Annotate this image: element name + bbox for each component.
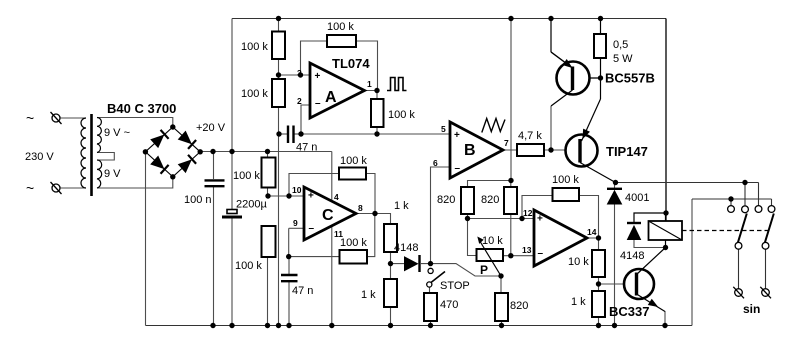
wire BC557B emitter feed: [550, 19, 552, 53]
wire wiper node to 820: [500, 276, 503, 326]
relay coil: [649, 221, 683, 240]
wire pot left terminal: [468, 219, 477, 256]
svg-text:BC557B: BC557B: [605, 71, 655, 86]
relay lever right: [765, 214, 774, 243]
switch STOP lever: [431, 272, 445, 283]
resistor 100k C divider upper: [262, 158, 276, 188]
svg-text:100 k: 100 k: [327, 21, 354, 33]
transistor TIP147 emitter lead: [582, 99, 601, 141]
svg-text:TL074: TL074: [332, 56, 370, 71]
wire C 47n bottom leads: [288, 257, 290, 326]
wire relay contact feed from TIP147 collector: [616, 183, 759, 207]
resistor 470: [424, 293, 437, 321]
potentiometer P wiper arrow: [477, 237, 501, 277]
svg-text:4148: 4148: [394, 242, 418, 254]
wire transformer secondary top lead to bridge: [97, 118, 173, 128]
transistor BC557B emitter lead: [551, 52, 573, 68]
transistor BC337 emitter arrow: [649, 300, 657, 307]
svg-text:P: P: [480, 263, 488, 277]
wire B output: [503, 149, 566, 151]
svg-text:–: –: [455, 163, 461, 174]
resistor 820 second: [504, 187, 517, 214]
transistor TIP147 emitter arrow: [583, 129, 589, 138]
transistor BC557B collector lead: [551, 90, 573, 106]
resistor 100k C feedback top: [339, 168, 366, 180]
resistor 100k A divider upper: [272, 32, 285, 60]
transformer T1 core: [90, 114, 93, 196]
svg-text:~: ~: [26, 180, 34, 196]
svg-text:820: 820: [510, 300, 528, 312]
wire x511 rail drop to 820 pair: [510, 19, 512, 181]
relay pole right circle: [762, 242, 769, 249]
resistor 100k C divider lower: [262, 226, 276, 257]
svg-text:5 W: 5 W: [613, 53, 633, 65]
resistor 1k C output: [384, 224, 397, 252]
relay contact c4: [768, 206, 775, 213]
wire A pin2 input: [301, 105, 310, 134]
wire TIP147 base: [551, 149, 578, 151]
svg-text:6: 6: [433, 158, 438, 168]
relay pole left circle: [735, 242, 742, 249]
wire D feedback: [522, 196, 599, 239]
resistor 100k C feedback bottom: [340, 250, 368, 264]
wire C divider upper lead: [267, 152, 269, 326]
bridge diode lower-left: [151, 156, 169, 174]
resistor 4.7k: [517, 144, 544, 156]
wire BC557B base lead: [574, 77, 601, 79]
op-amp D triangle: [534, 210, 587, 266]
wire A divider chain: [278, 19, 280, 326]
svg-text:100 k: 100 k: [241, 88, 268, 100]
svg-text:100 k: 100 k: [241, 41, 268, 53]
wire 47n left lead: [279, 133, 287, 135]
svg-text:12: 12: [523, 208, 533, 218]
svg-text:8: 8: [358, 203, 363, 213]
wire C out 1k to diode node: [391, 252, 431, 264]
wire BC557B collector drop: [550, 106, 552, 150]
svg-text:13: 13: [522, 245, 532, 255]
bridge diode upper-right: [178, 131, 196, 149]
wire node A-out to B pin5: [301, 133, 450, 135]
svg-text:1 k: 1 k: [394, 200, 409, 212]
transformer T1 primary winding: [81, 118, 86, 188]
relay lever left: [738, 214, 747, 243]
wire 47n right lead: [295, 133, 302, 135]
svg-text:+: +: [454, 130, 460, 141]
svg-text:+: +: [308, 191, 314, 202]
svg-text:B: B: [464, 142, 476, 159]
svg-text:–: –: [538, 248, 544, 259]
wire switch lower contacts to sin terminals: [739, 249, 766, 288]
svg-text:C: C: [322, 207, 334, 224]
svg-text:470: 470: [440, 299, 458, 311]
wire C pin9 down to feedback node: [288, 228, 290, 256]
wire ground riser right: [691, 199, 693, 326]
wire 820#1 to pin12: [467, 214, 469, 219]
wire transformer primary top lead: [60, 117, 86, 119]
svg-text:2: 2: [297, 96, 302, 106]
svg-text:820: 820: [481, 194, 499, 206]
svg-text:100 k: 100 k: [552, 174, 579, 186]
svg-text:+: +: [315, 71, 321, 82]
svg-text:B40 C 3700: B40 C 3700: [107, 101, 176, 116]
svg-text:0,5: 0,5: [613, 39, 628, 51]
svg-text:820: 820: [437, 194, 455, 206]
svg-text:sin: sin: [743, 302, 760, 316]
svg-text:5: 5: [441, 124, 446, 134]
svg-text:4148: 4148: [620, 250, 644, 262]
resistor 0.5 ohm 5W: [594, 34, 606, 58]
resistor 820 below pot: [495, 293, 508, 321]
junction dots: [276, 16, 281, 21]
svg-text:–: –: [309, 223, 315, 234]
svg-text:+: +: [537, 214, 543, 225]
diode 4148 at C output: [405, 255, 420, 272]
bridge diode upper-left: [151, 130, 169, 148]
wire 2200u leads: [231, 209, 233, 211]
svg-text:47 n: 47 n: [292, 285, 313, 297]
wire top +20V rail: [232, 18, 666, 20]
bridge diode lower-right: [178, 155, 196, 173]
svg-text:100 k: 100 k: [388, 109, 415, 121]
transistor BC557B body: [557, 62, 590, 95]
svg-text:14: 14: [587, 227, 597, 237]
wire C pin11 to ground: [331, 226, 333, 326]
wire B pin6 down to diode node: [431, 167, 451, 264]
terminal sin left: [733, 287, 744, 299]
op-amp C triangle: [304, 187, 356, 240]
resistor 100k A feedback: [327, 35, 356, 47]
wire left column top (x=232): [231, 19, 233, 210]
diode 4148 at relay: [627, 223, 641, 240]
resistor 1k lower: [384, 279, 397, 307]
wire ground rail: [146, 325, 693, 327]
wire diode node to wiper path: [431, 264, 502, 276]
diode 4001: [607, 189, 622, 204]
transformer T1 secondary winding 9V upper: [97, 118, 101, 153]
relay mechanical link dashed: [682, 230, 770, 232]
wire relay 4148 top lead: [634, 213, 666, 222]
wire transformer primary bottom lead: [60, 187, 86, 189]
svg-text:100 k: 100 k: [340, 237, 367, 249]
wire C pin10 input: [268, 195, 304, 197]
wire left column bottom (x=232): [231, 219, 233, 326]
svg-text:~: ~: [26, 110, 34, 126]
wire +20V rail from bridge: [200, 151, 332, 153]
wire 0.5 ohm leads: [600, 19, 602, 100]
wire op-amp C pin4 feed: [331, 152, 333, 202]
svg-text:BC337: BC337: [609, 304, 649, 319]
wire BC337 emitter to ground: [664, 311, 666, 326]
svg-text:10 k: 10 k: [568, 256, 589, 268]
svg-text:11: 11: [334, 229, 343, 239]
capacitor 100n smoothing: [205, 180, 225, 186]
wire C pin10 to top feedback: [289, 174, 375, 214]
svg-text:9 V ~: 9 V ~: [104, 127, 130, 139]
svg-text:47 n: 47 n: [296, 142, 317, 154]
svg-text:A: A: [325, 89, 337, 106]
wire D output: [587, 238, 599, 326]
resistor 10k D output: [592, 250, 605, 277]
wire 100n branch: [213, 152, 215, 326]
svg-text:10: 10: [292, 185, 302, 195]
wire 820#2 to pin13: [510, 214, 512, 256]
transistor BC557B bar: [571, 67, 574, 91]
squarewave symbol: [387, 78, 407, 91]
svg-text:100 n: 100 n: [184, 194, 212, 206]
transistor BC337 collector lead: [637, 248, 666, 275]
wire D pin13 input: [503, 255, 534, 257]
resistor 100k A output load: [371, 99, 384, 127]
wire stop switch to 470: [430, 287, 431, 325]
relay contact c1: [728, 206, 735, 213]
capacitor 47n at C: [281, 275, 298, 281]
wire bridge minus drop: [145, 152, 147, 326]
switch STOP contact upper: [428, 268, 433, 273]
svg-text:3: 3: [297, 68, 302, 78]
svg-text:1: 1: [367, 79, 372, 89]
wire A pin3 input: [279, 74, 311, 76]
svg-text:STOP: STOP: [440, 280, 470, 292]
wire 820 pair top: [468, 181, 512, 188]
transistor TIP147 bar: [578, 139, 581, 163]
transistor TIP147 body: [566, 135, 598, 167]
svg-text:4: 4: [334, 192, 339, 202]
terminal input bottom: [51, 182, 62, 194]
svg-text:9 V: 9 V: [104, 168, 121, 180]
wire D pin12 input: [468, 218, 535, 220]
wire relay leads: [665, 213, 667, 248]
transistor TIP147 collector lead: [580, 163, 616, 183]
svg-text:–: –: [315, 98, 321, 109]
wire C output: [356, 214, 391, 225]
transistor BC337 bar: [635, 273, 638, 296]
capacitor 47n at A: [288, 126, 294, 144]
wire C pin9 input: [289, 227, 304, 229]
svg-text:1 k: 1 k: [571, 296, 586, 308]
wire relay 4148 bottom lead: [634, 240, 666, 248]
svg-text:4,7 k: 4,7 k: [518, 130, 542, 142]
resistor 820 first: [461, 187, 474, 214]
wire 4001 leads: [614, 183, 616, 326]
wire transformer secondary bottom lead to bridge: [97, 177, 173, 188]
svg-text:9: 9: [293, 218, 298, 228]
svg-text:4001: 4001: [625, 192, 649, 204]
svg-text:100 k: 100 k: [233, 170, 260, 182]
wire BC337 base: [599, 283, 625, 285]
potentiometer P 10k body: [477, 249, 504, 261]
svg-text:7: 7: [504, 138, 509, 148]
svg-text:100 k: 100 k: [235, 260, 262, 272]
terminal input top: [51, 112, 62, 124]
resistor 100k A divider lower: [272, 79, 285, 107]
op-amp B triangle: [450, 122, 503, 178]
transistor BC557B emitter arrow: [551, 52, 573, 68]
wire switch ground feed: [692, 199, 772, 206]
transformer T1 secondary winding 9V lower: [97, 160, 102, 188]
terminal sin right: [760, 287, 771, 299]
bridge rectifier B40C3700 frame: [145, 127, 200, 177]
wire transformer secondary center link: [97, 153, 114, 161]
wire right drop to relay: [665, 19, 667, 222]
svg-text:2200µ: 2200µ: [236, 199, 267, 211]
svg-text:10 k: 10 k: [482, 235, 503, 247]
relay contact c3: [755, 206, 762, 213]
svg-text:+20 V: +20 V: [196, 122, 226, 134]
wire 1k lower leads: [390, 264, 392, 326]
resistor 100k D feedback: [553, 188, 580, 201]
wire A feedback loop: [301, 41, 378, 91]
transistor BC337 body: [624, 269, 654, 299]
svg-text:100 k: 100 k: [340, 155, 367, 167]
capacitor 2200u electrolytic: [222, 210, 242, 218]
switch STOP contact lower: [427, 282, 432, 287]
svg-text:230 V: 230 V: [25, 151, 54, 163]
op-amp A triangle: [310, 63, 365, 118]
wire C bottom feedback: [289, 214, 375, 257]
trianglewave symbol: [482, 119, 505, 133]
transistor BC337 emitter lead: [637, 294, 666, 312]
svg-text:TIP147: TIP147: [606, 144, 648, 159]
resistor 1k D output: [592, 291, 605, 317]
wire A output to resistor: [365, 91, 378, 135]
relay contact c2: [742, 206, 749, 213]
svg-text:1 k: 1 k: [361, 289, 376, 301]
